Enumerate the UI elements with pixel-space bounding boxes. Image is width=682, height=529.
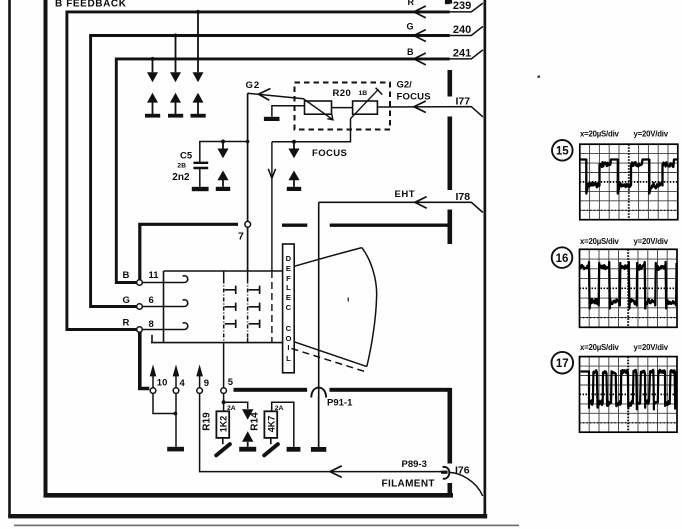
spark gap SG5 stem xyxy=(293,142,295,149)
svg-text:9: 9 xyxy=(204,378,209,389)
svg-text:E: E xyxy=(286,293,291,302)
resistor R14 top wire xyxy=(272,402,294,447)
speck inside CRT xyxy=(348,298,349,302)
svg-text:G: G xyxy=(123,295,130,306)
svg-text:x=20µS/div: x=20µS/div xyxy=(580,130,620,139)
svg-text:y=20V/div: y=20V/div xyxy=(634,343,669,352)
R14 chassis stroke xyxy=(264,444,278,455)
pin 10 arrow stem xyxy=(152,375,154,387)
R14 bottom stub xyxy=(270,438,272,444)
svg-text:1B: 1B xyxy=(359,90,368,97)
spark gap SG5 down arrow xyxy=(288,149,299,159)
wire B loop (241) xyxy=(116,59,450,283)
electrode G1 ticks xyxy=(225,286,236,328)
svg-text:R20: R20 xyxy=(333,88,352,99)
terminal circle R pin8 xyxy=(137,327,143,333)
capacitor C5 plates xyxy=(193,163,208,168)
module box dashed right edge xyxy=(447,0,452,497)
spark gap SG5 ground bar xyxy=(287,187,301,191)
svg-text:241: 241 xyxy=(453,47,471,59)
spark gap SG1 ground bar xyxy=(145,114,160,118)
svg-text:5: 5 xyxy=(228,377,234,388)
spark gap SG1 down arrow xyxy=(147,72,158,82)
scope 16 circle xyxy=(552,247,573,268)
resistor R19 body xyxy=(216,411,229,438)
electrode column focus dashed xyxy=(271,271,273,343)
svg-text:D: D xyxy=(286,254,292,263)
module box bottom edge xyxy=(44,493,454,498)
terminal circle B pin11 xyxy=(137,280,143,286)
spark gap SG2 up arrow xyxy=(170,93,181,103)
CRT socket box xyxy=(151,271,283,343)
connector plug pin thick stub xyxy=(441,471,448,474)
junction dot focus xyxy=(292,140,296,144)
wire R loop (239) xyxy=(67,12,450,330)
deflec coil strip xyxy=(283,244,295,373)
svg-text:C5: C5 xyxy=(180,151,193,162)
resistor R14 body xyxy=(264,411,277,438)
spark gap SG1 stem low xyxy=(152,102,154,114)
outer page border bottom xyxy=(8,514,487,518)
spark gap SG5 up arrow xyxy=(288,171,299,181)
svg-text:11: 11 xyxy=(149,270,160,281)
spark gap SG4 stem low xyxy=(222,180,224,187)
wire pin11 to socket + heater hook xyxy=(142,276,187,283)
scope 15 circle xyxy=(552,140,573,161)
scope 15 graticule xyxy=(580,144,678,220)
pin 9 arrowhead xyxy=(196,364,203,376)
spark gap SG6 down arrow xyxy=(242,409,253,420)
spark gap SG4 down arrow xyxy=(217,149,228,159)
node 7 circle xyxy=(245,221,251,227)
wire pin9 filament return xyxy=(200,393,442,471)
pot R20a wiper diagonal xyxy=(303,99,333,120)
svg-text:239: 239 xyxy=(453,0,471,12)
svg-text:6: 6 xyxy=(149,295,154,306)
svg-text:B FEEDBACK: B FEEDBACK xyxy=(55,0,127,9)
svg-text:G2: G2 xyxy=(246,80,261,91)
wire pin8 to socket + heater hook xyxy=(142,323,187,330)
svg-text:I77: I77 xyxy=(456,96,471,108)
svg-text:I: I xyxy=(287,343,289,352)
spark gap SG2 ground bar xyxy=(168,114,183,118)
spark gap SG3 stem xyxy=(197,12,199,72)
svg-text:E: E xyxy=(286,264,291,273)
junction dot wire B xyxy=(151,57,155,61)
pot R20a body xyxy=(305,101,332,114)
wire G thin jog to edge xyxy=(450,26,483,35)
scope 15 trace xyxy=(581,160,678,194)
pot R20b wiper diagonal xyxy=(351,89,379,118)
svg-text:7: 7 xyxy=(238,231,244,243)
scope 16 graticule xyxy=(580,249,678,327)
wire B thin jog to edge xyxy=(450,50,483,59)
wire EHT vertical to anode xyxy=(318,202,320,447)
wire pot R20a left to ground xyxy=(272,106,305,117)
node vertical G2 net xyxy=(247,93,249,271)
terminal circle G pin6 xyxy=(137,304,143,310)
svg-text:15: 15 xyxy=(556,146,569,158)
arrowhead focus down xyxy=(268,169,275,178)
anode bus P91-1 right segment xyxy=(330,388,452,392)
svg-text:R19: R19 xyxy=(202,412,213,431)
svg-text:x=20µS/div: x=20µS/div xyxy=(580,237,620,246)
wire pins 10-4 join xyxy=(153,393,176,446)
svg-text:I78: I78 xyxy=(456,191,471,203)
spark gap SG2 stem low xyxy=(175,102,177,114)
svg-text:F: F xyxy=(286,274,291,283)
spark gap SG2 stem xyxy=(175,36,177,73)
outer page border right xyxy=(484,0,487,518)
svg-text:G2/: G2/ xyxy=(397,80,413,91)
ground bar pot xyxy=(264,117,280,121)
wire B-feedback return thick xyxy=(140,332,150,389)
pin plug 5 circle xyxy=(221,388,227,394)
ground bar R14 right xyxy=(287,447,301,452)
spark gap SG1 up arrow xyxy=(147,93,158,103)
pin plug 4 circle xyxy=(173,388,179,394)
svg-text:I76: I76 xyxy=(455,465,470,477)
anode bus P91-1 left segment xyxy=(234,388,308,392)
svg-text:16: 16 xyxy=(556,253,569,265)
svg-text:2A: 2A xyxy=(227,405,236,412)
stray speck xyxy=(538,76,540,78)
svg-text:L: L xyxy=(286,354,291,363)
svg-text:R14: R14 xyxy=(250,412,261,431)
page edge faint line xyxy=(14,525,519,527)
pot R20b body xyxy=(353,101,378,114)
scope 17 trace xyxy=(581,370,677,410)
svg-text:R: R xyxy=(123,317,130,328)
spark gap SG4 ground bar xyxy=(216,187,230,191)
wire focus net from wiper xyxy=(272,119,351,142)
spark gap SG2 down arrow xyxy=(170,72,181,82)
CRT flare bottom line xyxy=(294,342,367,367)
svg-text:O: O xyxy=(285,334,291,343)
svg-text:C: C xyxy=(286,303,292,312)
arrowhead EHT xyxy=(415,197,427,209)
CRT flare dashed line xyxy=(292,349,368,373)
junction dot G2/C5 xyxy=(246,140,250,144)
anode cap arc xyxy=(311,388,326,398)
wire pin5 to spark gap xyxy=(224,402,248,409)
pin 5 wire from socket xyxy=(223,343,225,388)
svg-text:y=20V/div: y=20V/div xyxy=(634,237,669,246)
ground bar EHT xyxy=(311,447,326,452)
spark gap SG1 stem xyxy=(152,59,154,72)
junction dot wire R xyxy=(196,10,200,14)
svg-text:P89-3: P89-3 xyxy=(402,459,427,470)
wire I77 xyxy=(377,107,483,117)
arrowhead filament xyxy=(330,466,342,478)
wire focus vertical xyxy=(271,142,273,271)
pin 9 arrow stem xyxy=(199,375,201,387)
wire R thin jog to edge xyxy=(450,3,483,12)
wire C5 top xyxy=(200,142,248,162)
svg-text:EHT: EHT xyxy=(395,189,416,200)
arrowhead wire G xyxy=(414,30,426,42)
pin 4 arrowhead xyxy=(173,364,180,376)
wire G2 to pot wiper xyxy=(248,93,304,99)
scope 17 graticule xyxy=(580,357,678,433)
svg-text:x=20µS/div: x=20µS/div xyxy=(580,343,620,352)
spark gap SG5 stem low xyxy=(293,180,295,187)
pin plug 9 circle xyxy=(197,388,203,394)
pin 4 arrow stem xyxy=(175,375,177,387)
ground bar SG6 xyxy=(239,447,256,452)
svg-text:FILAMENT: FILAMENT xyxy=(382,479,435,490)
svg-text:4K7: 4K7 xyxy=(266,416,276,433)
svg-text:2A: 2A xyxy=(275,405,284,412)
connector socket arc P89-3/I76 xyxy=(443,467,450,479)
svg-text:17: 17 xyxy=(556,358,569,370)
spark gap SG4 up arrow xyxy=(217,171,228,181)
scope 16 trace xyxy=(581,262,677,309)
electrode column G2 dash-dot xyxy=(247,271,249,280)
R19 bottom stub xyxy=(222,438,224,444)
spark gap SG3 up arrow xyxy=(193,93,204,103)
scope 17 circle xyxy=(552,352,574,374)
electrode column G1 dash-dot xyxy=(223,271,225,280)
pot R20a wiper tick xyxy=(327,114,333,120)
arrowhead wire B xyxy=(414,53,426,65)
wire I76 to border xyxy=(449,472,483,496)
svg-text:P91-1: P91-1 xyxy=(327,398,353,409)
spark gap SG6 up arrow xyxy=(242,431,253,442)
arrowhead G2 xyxy=(259,89,271,101)
svg-text:L: L xyxy=(286,283,291,292)
spark gap SG3 ground bar xyxy=(191,114,206,118)
pot R20b wiper tick xyxy=(376,88,383,95)
svg-text:10: 10 xyxy=(157,377,168,388)
svg-text:4: 4 xyxy=(180,378,186,389)
wire EHT xyxy=(319,202,483,212)
ground bar pins 10-4 xyxy=(167,447,184,452)
junction dot pin5 xyxy=(222,400,226,404)
wire pin6 to socket + heater hook xyxy=(142,300,187,307)
pin plug 10 circle xyxy=(150,388,156,394)
svg-text:240: 240 xyxy=(453,24,471,36)
svg-text:B: B xyxy=(407,47,414,57)
wire pot link xyxy=(332,107,353,109)
spark gap SG6 stem low xyxy=(247,442,249,447)
electrode G2 ticks xyxy=(249,286,260,328)
outer page border left xyxy=(8,0,11,517)
wire aquadag thick left xyxy=(140,224,238,282)
svg-text:FOCUS: FOCUS xyxy=(397,92,431,103)
CRT face curve xyxy=(362,248,377,367)
svg-text:FOCUS: FOCUS xyxy=(312,148,347,159)
svg-text:2n2: 2n2 xyxy=(172,172,190,183)
svg-text:G: G xyxy=(407,22,414,32)
wire G loop (240) xyxy=(91,36,450,307)
svg-text:C: C xyxy=(286,324,292,333)
dash stub near border top xyxy=(445,0,450,4)
capacitor C5 lower stem xyxy=(199,169,201,187)
ground bar C5 xyxy=(192,187,209,191)
spark gap SG3 stem low xyxy=(197,102,199,114)
junction dot wire G xyxy=(174,34,178,38)
svg-text:2B: 2B xyxy=(177,163,186,170)
wire pin5 node xyxy=(223,393,225,411)
arrowhead I77 xyxy=(414,101,426,113)
spark gap SG4 stem xyxy=(222,142,224,149)
module box left edge xyxy=(44,0,48,497)
arrowhead wire R xyxy=(414,6,426,18)
svg-text:R: R xyxy=(408,0,415,7)
R20 dashed enclosure xyxy=(295,83,391,130)
svg-text:8: 8 xyxy=(149,319,154,330)
svg-text:y=20V/div: y=20V/div xyxy=(634,130,669,139)
junction dot pins 10-4 xyxy=(174,412,178,416)
svg-text:B: B xyxy=(123,270,130,281)
svg-text:1K2: 1K2 xyxy=(218,416,228,433)
junction dot C5 xyxy=(221,140,225,144)
CRT flare top line xyxy=(294,248,362,267)
wire EHT to chassis xyxy=(318,396,320,447)
spark gap SG3 down arrow xyxy=(193,72,204,82)
R19 chassis stroke xyxy=(216,444,230,455)
deflec coil letters xyxy=(285,254,291,363)
pin 10 arrowhead xyxy=(150,364,157,376)
wire aquadag thick right xyxy=(282,223,448,226)
